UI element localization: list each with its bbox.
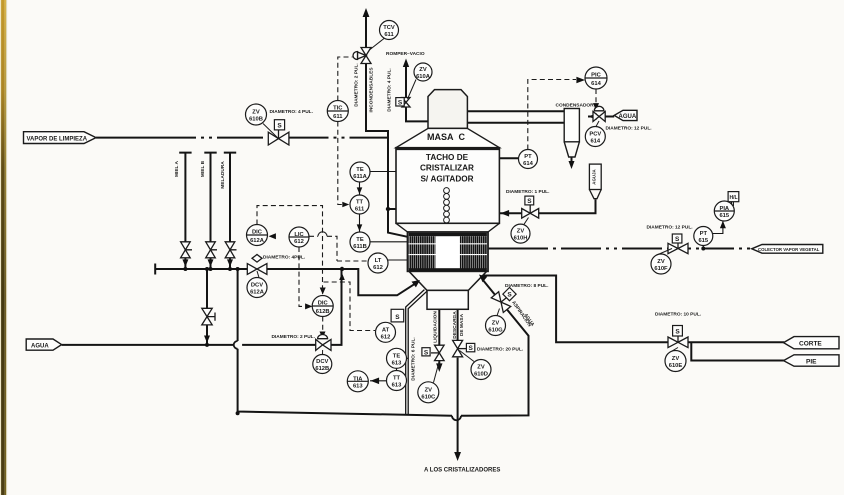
svg-text:TACHO DE: TACHO DE xyxy=(426,153,469,162)
svg-text:DIC: DIC xyxy=(318,301,329,307)
svg-text:614: 614 xyxy=(590,139,600,145)
svg-text:614: 614 xyxy=(591,81,601,87)
svg-text:610C: 610C xyxy=(421,394,436,400)
svg-text:ZV: ZV xyxy=(492,321,500,327)
svg-text:DIAMETRO: 10 PUL.: DIAMETRO: 10 PUL. xyxy=(655,312,701,318)
svg-text:PIA: PIA xyxy=(719,206,729,212)
svg-text:612: 612 xyxy=(381,334,391,340)
svg-text:ZV: ZV xyxy=(517,229,525,235)
svg-text:DIAMETRO: 12 PUL.: DIAMETRO: 12 PUL. xyxy=(647,225,693,231)
svg-text:610D: 610D xyxy=(474,372,488,378)
svg-text:TIA: TIA xyxy=(353,376,363,382)
svg-text:ZV: ZV xyxy=(425,387,433,393)
svg-text:610F: 610F xyxy=(654,266,668,272)
svg-text:TIC: TIC xyxy=(333,106,343,112)
svg-text:S: S xyxy=(675,328,680,335)
svg-text:PT: PT xyxy=(524,154,532,160)
svg-text:DIAMETRO: 4PUL.: DIAMETRO: 4PUL. xyxy=(263,255,305,261)
svg-text:DIAMETRO: 2 PUL.: DIAMETRO: 2 PUL. xyxy=(354,63,360,106)
svg-text:611: 611 xyxy=(384,32,394,38)
svg-text:COLECTOR VAPOR VEGETAL: COLECTOR VAPOR VEGETAL xyxy=(758,247,820,252)
svg-text:S/ AGITADOR: S/ AGITADOR xyxy=(420,175,473,184)
svg-text:612B: 612B xyxy=(315,366,329,372)
svg-text:ZV: ZV xyxy=(252,110,260,116)
svg-text:S: S xyxy=(277,122,282,129)
svg-text:MELADURA: MELADURA xyxy=(220,161,226,189)
svg-text:612: 612 xyxy=(373,265,383,271)
svg-text:610G: 610G xyxy=(488,328,503,334)
svg-text:610H: 610H xyxy=(514,236,528,242)
svg-text:PIC: PIC xyxy=(591,73,601,79)
svg-text:S: S xyxy=(424,349,429,356)
svg-text:AT: AT xyxy=(382,327,390,333)
svg-text:613: 613 xyxy=(353,383,363,389)
svg-text:613: 613 xyxy=(392,360,402,366)
svg-text:611: 611 xyxy=(333,114,343,120)
svg-text:TCV: TCV xyxy=(383,25,395,31)
svg-text:612B: 612B xyxy=(316,309,330,315)
svg-text:615: 615 xyxy=(698,238,708,244)
svg-text:PCV: PCV xyxy=(589,132,601,138)
svg-text:610B: 610B xyxy=(249,117,263,123)
svg-text:LIQUIDACION: LIQUIDACION xyxy=(433,311,439,343)
svg-text:S: S xyxy=(398,99,403,106)
svg-text:612: 612 xyxy=(294,239,304,245)
svg-text:AGUJA: AGUJA xyxy=(592,168,597,184)
svg-text:614: 614 xyxy=(523,161,533,167)
svg-text:DCV: DCV xyxy=(251,283,263,289)
svg-text:611A: 611A xyxy=(353,174,367,180)
svg-text:DIC: DIC xyxy=(252,230,263,236)
svg-text:ZV: ZV xyxy=(477,365,485,371)
svg-text:DIAMETRO: 4 PUL.: DIAMETRO: 4 PUL. xyxy=(270,109,313,115)
svg-text:DIAMETRO: 20 PUL.: DIAMETRO: 20 PUL. xyxy=(477,347,523,353)
svg-text:MIEL B: MIEL B xyxy=(200,160,206,177)
svg-text:LT: LT xyxy=(375,258,382,264)
svg-text:ZV: ZV xyxy=(672,356,680,362)
svg-text:CRISTALIZAR: CRISTALIZAR xyxy=(420,164,474,173)
svg-text:S: S xyxy=(507,292,512,299)
svg-text:CONDENSADOR: CONDENSADOR xyxy=(556,103,595,109)
svg-text:CORTE: CORTE xyxy=(799,340,822,347)
svg-text:LIC: LIC xyxy=(294,232,304,238)
svg-text:TT: TT xyxy=(393,376,401,382)
svg-text:DIAMETRO: 6 PUL.: DIAMETRO: 6 PUL. xyxy=(411,337,417,380)
svg-text:TE: TE xyxy=(393,353,401,359)
svg-text:TT: TT xyxy=(356,200,364,206)
svg-text:DIAMETRO: 8 PUL.: DIAMETRO: 8 PUL. xyxy=(505,283,548,289)
svg-text:S: S xyxy=(469,345,474,352)
svg-text:H/L: H/L xyxy=(729,195,737,201)
svg-text:DIAMETRO: 1 PUL.: DIAMETRO: 1 PUL. xyxy=(506,189,549,195)
svg-text:610E: 610E xyxy=(669,363,683,369)
svg-text:ZV: ZV xyxy=(657,259,665,265)
svg-text:DCV: DCV xyxy=(316,359,328,365)
svg-text:PIE: PIE xyxy=(806,358,817,365)
svg-text:MASA C: MASA C xyxy=(427,132,466,142)
svg-text:MIEL A: MIEL A xyxy=(174,160,180,177)
svg-text:AGUA: AGUA xyxy=(619,114,637,120)
svg-text:A LOS CRISTALIZADORES: A LOS CRISTALIZADORES xyxy=(424,468,500,474)
svg-text:615: 615 xyxy=(719,213,729,219)
svg-text:S: S xyxy=(675,236,680,243)
svg-text:611: 611 xyxy=(355,207,365,213)
svg-text:DIAMETRO: 4 PUL.: DIAMETRO: 4 PUL. xyxy=(387,68,393,111)
svg-text:612A: 612A xyxy=(250,238,265,244)
svg-text:610A: 610A xyxy=(416,74,431,80)
svg-text:S: S xyxy=(527,198,532,205)
svg-text:613: 613 xyxy=(392,383,402,389)
svg-text:VAPOR DE LIMPIEZA: VAPOR DE LIMPIEZA xyxy=(27,136,88,142)
svg-text:PT: PT xyxy=(700,231,708,237)
svg-text:DESCARGA: DESCARGA xyxy=(452,311,458,339)
svg-text:AGUA: AGUA xyxy=(31,344,49,350)
svg-text:TE: TE xyxy=(356,237,364,243)
svg-text:ROMPER–VACIO: ROMPER–VACIO xyxy=(386,51,425,57)
svg-text:612A: 612A xyxy=(250,290,265,296)
svg-text:INCONDENSABLES: INCONDENSABLES xyxy=(369,67,375,113)
svg-text:DIAMETRO: 2 PUL.: DIAMETRO: 2 PUL. xyxy=(272,334,315,340)
svg-text:DE MASA: DE MASA xyxy=(459,313,465,336)
svg-text:TE: TE xyxy=(356,167,364,173)
svg-text:611B: 611B xyxy=(353,244,367,250)
svg-text:ZV: ZV xyxy=(419,67,427,73)
svg-text:DIAMETRO: 12 PUL.: DIAMETRO: 12 PUL. xyxy=(606,126,652,132)
svg-text:S: S xyxy=(395,314,400,321)
